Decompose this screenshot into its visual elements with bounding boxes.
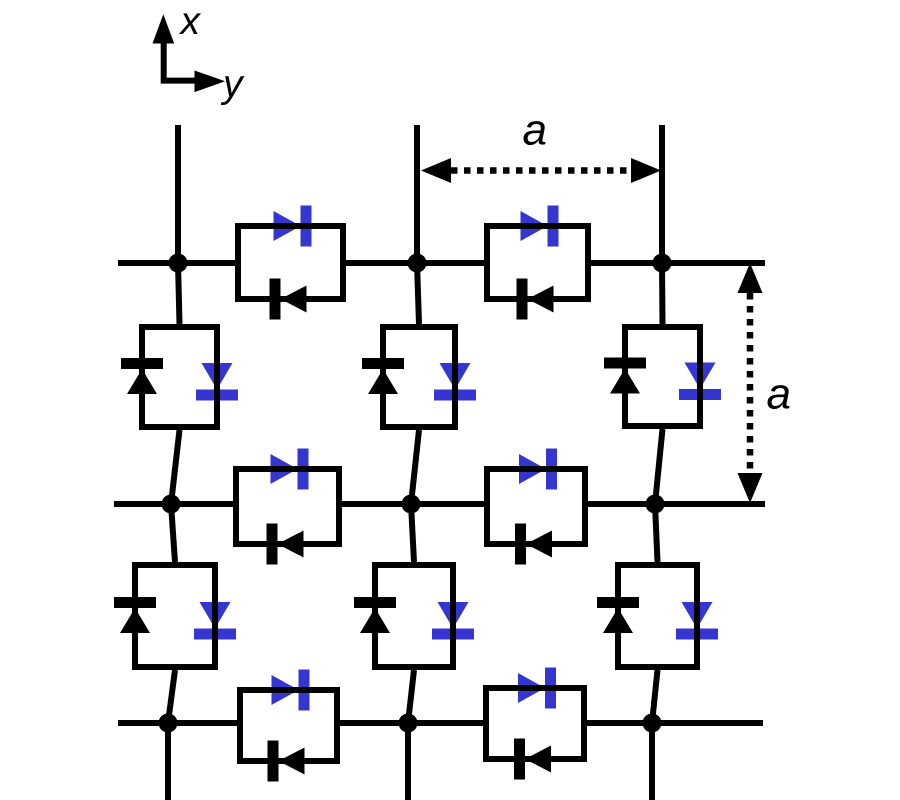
blue diode D-loop c1r1 (196, 363, 238, 401)
black diode D-loop c1r1 (121, 358, 163, 394)
loop r2 c2-c3 (487, 469, 585, 544)
wire col2 lower (408, 670, 414, 800)
loop r3 c2-c3 (486, 688, 584, 759)
loop r2 c1-c2 (236, 469, 339, 544)
loop r1 c1-c2 (238, 226, 343, 299)
axis origin L (164, 44, 195, 81)
wire row2 seg3 (585, 501, 765, 507)
dimension a horizontal dotted line (451, 167, 631, 174)
dimension a vertical top arrowhead (738, 263, 763, 293)
black diode D-loop r3c2 (514, 739, 551, 780)
wire row1 seg2 (343, 260, 487, 266)
wire row2 seg2 (339, 501, 487, 507)
blue diode D-loop c2r1 (434, 363, 476, 401)
svg-text:x: x (179, 0, 202, 43)
wire col1 middle (171, 430, 180, 562)
wire row3 seg2 (337, 720, 486, 726)
blue diode D-loop r1c2 (521, 206, 559, 247)
axis y arrowhead (195, 71, 226, 93)
loop c2 r2-r3 (375, 565, 453, 667)
node r3c1 (159, 714, 178, 733)
wire row2 seg1 (114, 501, 236, 507)
svg-text:y: y (220, 63, 245, 106)
black diode D-loop c3r2 (597, 597, 639, 633)
svg-text:a: a (523, 106, 547, 155)
blue diode D-loop r3c1 (272, 670, 310, 711)
blue diode D-loop c1r2 (194, 602, 236, 640)
black diode D-loop c2r1 (362, 358, 404, 394)
loop c3 r2-r3 (618, 565, 697, 667)
node r2c1 (162, 495, 181, 514)
loop c1 r1-r2 (142, 327, 217, 427)
blue diode D-loop r3c2 (518, 668, 556, 709)
wire col3 upper (659, 125, 666, 324)
black diode D-loop c2r2 (354, 597, 396, 633)
blue diode D-loop c3r1 (679, 363, 721, 401)
loop r1 c2-c3 (487, 226, 588, 299)
node r2c2 (402, 495, 421, 514)
wire col1 lower (168, 670, 175, 800)
black diode D-loop r1c2 (517, 279, 554, 320)
blue diode D-loop r2c2 (519, 449, 557, 490)
loop c3 r1-r2 (625, 327, 700, 426)
dimension a horizontal left arrowhead (421, 158, 451, 183)
wire col3 lower (652, 670, 658, 800)
wire col2 middle (411, 430, 419, 562)
axis x arrowhead (153, 14, 175, 43)
black diode D-loop r1c1 (270, 279, 307, 320)
loop c1 r2-r3 (135, 565, 215, 667)
node r1c3 (653, 254, 672, 273)
node r1c1 (169, 254, 188, 273)
blue diode D-loop c3r2 (676, 602, 718, 640)
wire col1 upper (178, 125, 180, 324)
blue diode D-loop r1c1 (274, 206, 312, 247)
black diode D-loop c3r1 (604, 358, 646, 394)
wire row3 seg1 (118, 720, 240, 726)
blue diode D-loop r2c1 (271, 449, 309, 490)
loop r3 c1-c2 (240, 690, 337, 761)
node r2c3 (646, 495, 665, 514)
dimension a vertical dotted line (747, 293, 754, 473)
wire row3 seg3 (584, 720, 763, 726)
wire row1 seg3 (588, 260, 765, 266)
wire col2 upper (417, 125, 419, 324)
node r1c2 (408, 254, 427, 273)
wire col3 middle (655, 429, 663, 562)
node r3c3 (643, 714, 662, 733)
loop c2 r1-r2 (383, 327, 455, 427)
dimension a vertical bottom arrowhead (738, 473, 763, 503)
black diode D-loop r2c2 (515, 524, 552, 565)
node r3c2 (399, 714, 418, 733)
svg-text:a: a (767, 370, 791, 419)
blue diode D-loop c2r2 (432, 602, 474, 640)
black diode D-loop r2c1 (267, 524, 304, 565)
black diode D-loop c1r2 (114, 597, 156, 633)
dimension a horizontal right arrowhead (631, 158, 661, 183)
wire row1 seg1 (118, 260, 238, 266)
black diode D-loop r3c1 (268, 741, 305, 782)
